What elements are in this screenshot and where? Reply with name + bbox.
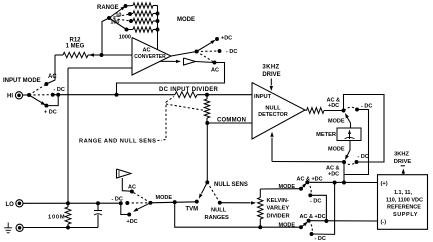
svg-text:10: 10 xyxy=(115,13,121,19)
svg-text:DC INPUT DIVIDER: DC INPUT DIVIDER xyxy=(159,87,219,93)
svg-text:HI: HI xyxy=(7,94,13,100)
svg-text:INPUT: INPUT xyxy=(254,94,272,100)
svg-text:LO: LO xyxy=(6,202,15,208)
svg-text:MODE: MODE xyxy=(279,184,296,190)
svg-text:CONVERTER: CONVERTER xyxy=(134,54,166,60)
svg-text:RANGES: RANGES xyxy=(205,215,230,221)
svg-text:RANGE AND NULL SENS: RANGE AND NULL SENS xyxy=(79,139,156,145)
svg-text:MODE: MODE xyxy=(328,119,345,125)
svg-text:DIVIDER: DIVIDER xyxy=(267,213,290,219)
svg-text:+DC: +DC xyxy=(221,36,232,42)
svg-text:100M: 100M xyxy=(48,215,65,221)
svg-text:100: 100 xyxy=(110,20,119,26)
svg-text:3KHZ: 3KHZ xyxy=(262,65,279,71)
svg-text:(-): (-) xyxy=(381,220,387,226)
svg-text:MODE: MODE xyxy=(156,195,173,201)
svg-text:VARLEY: VARLEY xyxy=(267,206,290,212)
svg-text:1 MEG: 1 MEG xyxy=(66,44,85,50)
svg-text:AC: AC xyxy=(211,68,219,74)
svg-text:- DC: - DC xyxy=(361,104,372,110)
svg-text:INPUT MODE: INPUT MODE xyxy=(3,78,41,84)
svg-text:- DC: - DC xyxy=(112,197,123,203)
svg-text:AC: AC xyxy=(48,74,57,80)
svg-text:1000: 1000 xyxy=(119,35,131,41)
svg-text:- DC: - DC xyxy=(54,87,65,93)
svg-text:COMMON: COMMON xyxy=(217,118,246,124)
svg-text:RANGE: RANGE xyxy=(97,5,119,11)
svg-text:NULL SENS: NULL SENS xyxy=(214,182,248,188)
svg-text:DETECTOR: DETECTOR xyxy=(258,112,288,118)
svg-text:+DC: +DC xyxy=(127,219,138,225)
svg-text:+ DC: + DC xyxy=(44,110,57,116)
svg-text:AC: AC xyxy=(143,48,151,54)
svg-text:REFERENCE: REFERENCE xyxy=(387,205,421,211)
svg-text:MODE: MODE xyxy=(279,223,296,229)
svg-text:DRIVE: DRIVE xyxy=(394,159,412,165)
svg-text:- DC: - DC xyxy=(315,236,326,242)
svg-text:- DC: - DC xyxy=(358,154,369,160)
svg-text:+DC: +DC xyxy=(328,103,339,109)
svg-text:TVM: TVM xyxy=(186,207,199,213)
svg-text:3KHZ: 3KHZ xyxy=(394,152,409,158)
svg-text:NULL: NULL xyxy=(211,208,227,214)
svg-text:NULL: NULL xyxy=(265,106,281,112)
svg-text:+DC: +DC xyxy=(328,172,339,178)
svg-text:- DC: - DC xyxy=(310,199,321,205)
svg-text:METER: METER xyxy=(316,132,336,138)
svg-text:(+): (+) xyxy=(381,181,388,187)
svg-text:AC: AC xyxy=(128,185,136,191)
svg-text:KELVIN-: KELVIN- xyxy=(267,198,289,204)
svg-text:MODE: MODE xyxy=(328,147,345,153)
svg-text:110, 1100 VDC: 110, 1100 VDC xyxy=(386,197,423,203)
svg-text:MODE: MODE xyxy=(177,17,195,23)
svg-text:1.1, 11,: 1.1, 11, xyxy=(394,190,413,196)
svg-text:AC & +DC: AC & +DC xyxy=(297,177,323,183)
svg-text:- DC: - DC xyxy=(226,49,237,55)
svg-text:DRIVE: DRIVE xyxy=(262,72,280,78)
svg-text:SUPPLY: SUPPLY xyxy=(393,212,418,218)
svg-text:AC & +DC: AC & +DC xyxy=(300,214,326,220)
